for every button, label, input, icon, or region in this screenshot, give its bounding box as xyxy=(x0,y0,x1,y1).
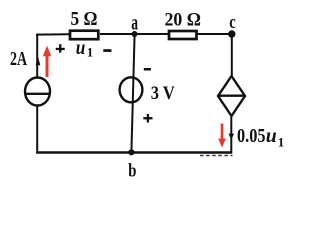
svg-text:0.05: 0.05 xyxy=(237,125,266,147)
dependent current source diamond xyxy=(218,76,245,116)
svg-text:5 Ω: 5 Ω xyxy=(71,8,98,30)
current direction arrowhead on right wire xyxy=(229,134,235,140)
current direction arrowhead on left wire xyxy=(36,56,41,65)
svg-text:1: 1 xyxy=(278,135,285,150)
label minus above 3V xyxy=(144,68,151,71)
svg-text:a: a xyxy=(131,10,138,35)
wire left vertical upper (corner to current source) xyxy=(36,34,38,78)
svg-text:20 Ω: 20 Ω xyxy=(165,10,202,31)
node a dot xyxy=(132,31,138,37)
node c dot xyxy=(228,30,235,37)
svg-text:1: 1 xyxy=(87,45,94,60)
svg-text:c: c xyxy=(229,12,236,33)
svg-text:u: u xyxy=(266,125,277,147)
wire top middle R1 to R2 through node a xyxy=(100,33,168,35)
red annotation arrow up (2A) xyxy=(43,46,51,77)
label u1 plus sign xyxy=(56,44,65,52)
dependent source bar xyxy=(219,94,244,96)
resistor R 5ohm body xyxy=(70,31,98,40)
resistor R 20ohm body xyxy=(169,31,197,39)
voltage source 3V circle xyxy=(120,77,143,102)
wire bottom from left corner to right corner through node b xyxy=(36,151,232,154)
wire top-left from corner to R1 xyxy=(36,33,70,35)
red annotation arrow down (0.05u1) xyxy=(218,124,226,148)
wire right vertical lower (diamond to bottom) xyxy=(230,116,232,154)
label u1 minus sign xyxy=(103,49,111,52)
wire middle vertical a to b through voltage source xyxy=(131,34,134,153)
label plus below 3V xyxy=(143,114,152,123)
current source 2A bar xyxy=(25,93,50,95)
svg-text:u: u xyxy=(76,35,86,59)
wire right vertical upper (c to diamond) xyxy=(231,33,233,77)
svg-text:3 V: 3 V xyxy=(151,83,175,104)
svg-text:2A: 2A xyxy=(10,48,27,70)
node b dot xyxy=(128,149,134,155)
current source 2A circle xyxy=(25,78,50,106)
svg-text:b: b xyxy=(128,160,136,181)
wire left vertical lower (current source to bottom) xyxy=(36,105,38,153)
wire scan artifact under bottom right xyxy=(200,155,233,157)
wire top-right R2 to node c xyxy=(198,33,232,35)
